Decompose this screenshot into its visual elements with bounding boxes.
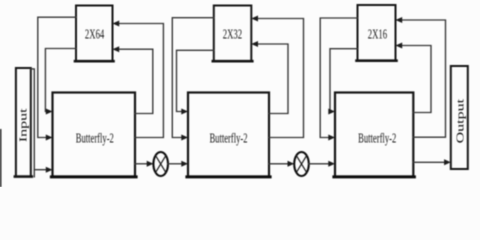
memory M2 bottom emphasis bbox=[213, 60, 253, 63]
wire M3 upper-left to U3 mid input bbox=[320, 18, 357, 138]
butterfly U1 bottom emphasis bbox=[51, 175, 136, 178]
multiplier X1 bbox=[153, 152, 168, 176]
arrowhead into U3 top bbox=[328, 109, 335, 115]
arrowhead into U1 top bbox=[46, 109, 53, 115]
wire X1 to U2 bottom input bbox=[168, 163, 182, 165]
butterfly U3 box bbox=[335, 93, 413, 177]
arrowhead into U1 bottom bbox=[46, 167, 53, 173]
arrowhead into M1 upper-right bbox=[113, 21, 120, 27]
wire U1 data out to multiplier X1 bbox=[135, 163, 148, 165]
svg-text:Butterfly-2: Butterfly-2 bbox=[209, 132, 247, 146]
wire M2 upper-left to U2 mid input bbox=[172, 18, 214, 138]
arrowhead into X1 bbox=[147, 161, 154, 167]
scan edge artifact bbox=[0, 129, 1, 187]
svg-text:Butterfly-2: Butterfly-2 bbox=[76, 132, 114, 146]
wire U3 feedback upper to M3 lower-right input bbox=[402, 46, 432, 113]
arrowhead into X2 bbox=[288, 161, 295, 167]
arrowhead into U3 mid bbox=[328, 135, 335, 141]
wire X2 to U3 bottom input bbox=[309, 163, 329, 165]
butterfly U1 box bbox=[53, 93, 136, 177]
arrowhead into U2 mid bbox=[181, 135, 188, 141]
arrowhead into M2 upper-right bbox=[251, 16, 258, 22]
arrowhead into U1 mid bbox=[46, 135, 53, 141]
wire U2 feedback upper to M2 lower-right input bbox=[258, 44, 289, 114]
butterfly U2 box bbox=[188, 93, 269, 177]
wire U2 data out to multiplier X2 bbox=[269, 163, 288, 165]
svg-text:2X64: 2X64 bbox=[85, 28, 105, 42]
svg-text:Butterfly-2: Butterfly-2 bbox=[358, 132, 396, 146]
multiplier X2 bbox=[294, 152, 309, 176]
output register box bbox=[451, 66, 468, 169]
wire U1 feedback mid to M1 upper-right input bbox=[119, 24, 164, 138]
butterfly U3 bottom emphasis bbox=[334, 175, 415, 178]
arrowhead into output bbox=[444, 159, 451, 165]
arrowhead into U2 bottom bbox=[181, 161, 188, 167]
wire U3 data out to output register bbox=[413, 161, 445, 163]
wire M1 upper-left to U1 mid input bbox=[38, 17, 76, 137]
arrowhead into U3 bottom bbox=[328, 161, 335, 167]
memory M3 2X16 box bbox=[358, 5, 396, 61]
wire stub below input corner bbox=[33, 170, 35, 177]
arrowhead into U2 top bbox=[181, 109, 188, 115]
wire input feed to U1 bottom input bbox=[31, 69, 47, 170]
arrowhead into M2 lower-right bbox=[251, 41, 258, 47]
input box bottom emphasis bbox=[15, 175, 32, 178]
memory M2 2X32 box bbox=[214, 6, 252, 62]
wire M1 lower-left to U1 top input bbox=[45, 49, 76, 112]
butterfly U2 bottom emphasis bbox=[187, 175, 270, 178]
arrowhead into M3 lower-right bbox=[396, 43, 403, 49]
memory M1 2X64 box bbox=[76, 6, 113, 62]
svg-text:2X32: 2X32 bbox=[223, 28, 242, 42]
svg-text:Output: Output bbox=[454, 99, 465, 144]
svg-text:Input: Input bbox=[17, 108, 28, 142]
input register box bbox=[16, 68, 31, 177]
arrowhead into M3 upper-right bbox=[396, 17, 403, 23]
wire U2 feedback mid to M2 upper-right input bbox=[258, 19, 304, 138]
wire U1 feedback upper to M1 lower-right input bbox=[119, 49, 153, 113]
wire M3 lower-left to U3 top input bbox=[330, 49, 358, 112]
wire M2 lower-left to U2 top input bbox=[177, 50, 214, 111]
memory M3 bottom emphasis bbox=[357, 59, 397, 62]
memory M1 bottom emphasis bbox=[75, 60, 114, 63]
wire U3 feedback mid to M3 upper-right input bbox=[402, 20, 446, 137]
arrowhead into M1 lower-right bbox=[113, 46, 120, 52]
svg-text:2X16: 2X16 bbox=[368, 28, 388, 42]
